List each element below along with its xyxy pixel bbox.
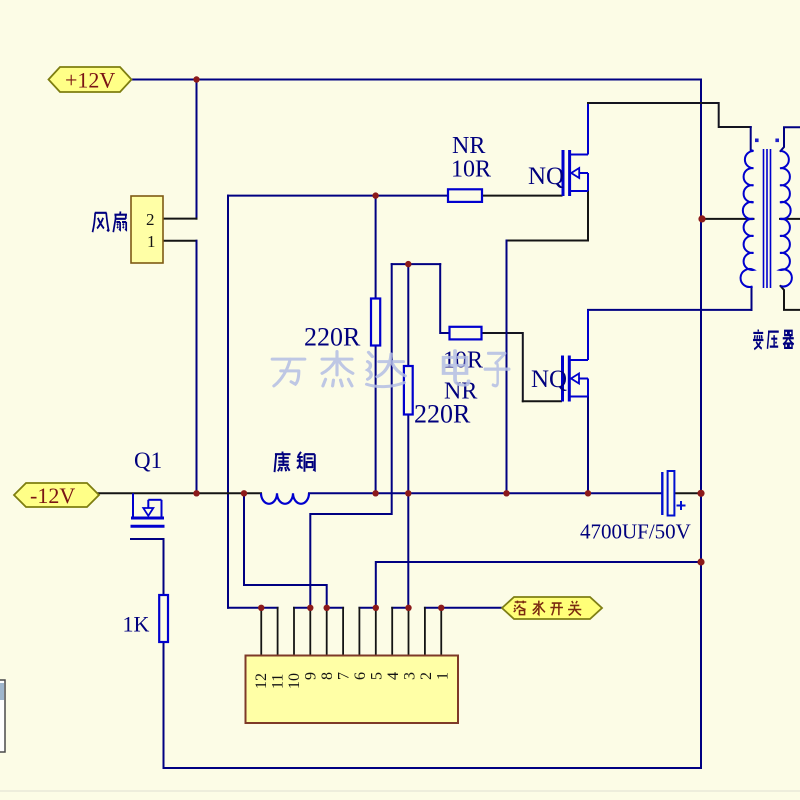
junction -12V rail / 220R left (372, 490, 378, 496)
wire rail branch to pin 8 (244, 493, 327, 608)
wire transformer center tap to bus (702, 218, 754, 220)
wire secondary bottom lead exiting right (781, 286, 800, 310)
transformer T1 (741, 139, 792, 289)
inductor constantan shunt (261, 493, 309, 504)
wire tie pins 10-9 (294, 607, 310, 609)
svg-text:10R: 10R (451, 157, 491, 183)
junction pin 9 (307, 605, 313, 611)
resistor 220R (right) (404, 366, 413, 415)
svg-text:11: 11 (270, 674, 287, 689)
wire 220R1 top lead (375, 196, 377, 299)
junction +12V rail / fan branch (193, 76, 199, 82)
svg-text:NQ: NQ (531, 366, 567, 393)
svg-text:1: 1 (147, 232, 156, 251)
wire tie pins 8-7 (327, 607, 343, 609)
transistor NQ1 N-MOSFET (563, 104, 588, 196)
svg-text:220R: 220R (304, 323, 361, 352)
wire left drive loop vertical x=228 (227, 196, 229, 608)
svg-text:4700UF/50V: 4700UF/50V (580, 520, 691, 544)
svg-text:10R: 10R (443, 348, 483, 374)
resistor 1K (159, 595, 168, 642)
label transformer (bianyaqi) (753, 329, 794, 349)
wire gate bus NQ1 y=195.6 (228, 195, 448, 197)
junction -12V rail / fan pin1 (193, 490, 199, 496)
svg-text:8: 8 (319, 672, 336, 680)
svg-text:6: 6 (352, 672, 369, 680)
wire connector pin stubs (261, 608, 441, 656)
junction y264 bus / 220R right (405, 261, 411, 267)
wire 220R2 top lead (407, 264, 409, 366)
wire tie pins 6-5 (359, 607, 375, 609)
svg-text:2: 2 (418, 672, 435, 680)
resistor 220R (left) (371, 299, 380, 346)
scrollbar artifact left edge (0, 680, 5, 752)
power flag -12V (14, 483, 99, 507)
junction -12V rail / pin8 branch (241, 490, 247, 496)
wire x=391.7 drop from y=264 (310, 264, 391, 608)
wire 10R2 left lead drop (440, 264, 449, 333)
junction pin 8 (324, 605, 330, 611)
resistor NR 10R (upper) (448, 189, 482, 202)
svg-text:3: 3 (402, 672, 419, 680)
junction -12V rail / right bus (697, 490, 704, 497)
wire -12V rail left section (97, 492, 261, 494)
wire NQ1 drain rail y=103 (588, 103, 751, 127)
faint bottom separator line (0, 790, 800, 792)
transistor Q1 N-MOSFET (rotated) (131, 493, 165, 526)
wire NQ2 gate segment (523, 400, 561, 402)
junction gate bus / 220R left (372, 192, 378, 198)
wire fan pin 1 stub (163, 240, 197, 242)
svg-text:220R: 220R (414, 400, 471, 429)
transformer core (763, 149, 765, 288)
wire secondary tap exiting right (780, 218, 800, 220)
wire 220R2 bottom lead to -12V rail (407, 415, 409, 494)
svg-text:1: 1 (435, 672, 452, 680)
junction -12V rail / NQ1 source (503, 490, 509, 496)
wire bottom return rail y=768 (164, 767, 702, 769)
wire NQ1 source to -12V rail (507, 191, 589, 241)
junction pin 3 (405, 605, 411, 611)
wire secondary top lead exiting right (781, 127, 800, 151)
resistor 10R NR (lower) (450, 327, 482, 340)
wire Q1 gate lead to 1K (131, 539, 164, 595)
wire -12V rail mid section (309, 492, 662, 494)
wire node bus y=264 (392, 263, 441, 265)
wire capacitor right lead (675, 492, 702, 494)
svg-text:5: 5 (369, 672, 386, 680)
transformer polarity dot primary (755, 139, 759, 143)
svg-text:Q1: Q1 (134, 448, 162, 473)
wire transformer primary top lead (750, 127, 752, 150)
wire +12V top rail (131, 79, 701, 81)
net flag water switch (luoshui kaiguan) (502, 597, 602, 619)
wire fan pin 1 drop to -12V rail (196, 241, 198, 494)
connector J1 (12 pin) (246, 656, 459, 724)
svg-text:NQ: NQ (528, 163, 564, 190)
wire transformer primary bottom lead (751, 287, 753, 310)
wire 220R1 bottom lead to -12V rail (375, 346, 377, 494)
label constantan (kangtong) (275, 451, 315, 472)
transformer polarity dot secondary (775, 139, 779, 143)
capacitor C1 4700UF/50V (662, 471, 685, 516)
wire 10R2 right to NQ2 gate (482, 333, 523, 401)
junction right bus / y562 bus (697, 558, 704, 565)
wire tie pins 12-11 (261, 607, 277, 609)
wire 1K bottom to return rail (163, 642, 165, 768)
svg-text:9: 9 (303, 672, 320, 680)
wire rail to connector pin 3 (407, 493, 409, 608)
svg-text:2: 2 (146, 210, 155, 229)
svg-text:1K: 1K (123, 612, 150, 637)
wire tie pins 4-3 (392, 607, 408, 609)
wire tie pins 2-1 (425, 607, 441, 609)
connector fan (2 pin) (131, 196, 163, 263)
wire NQ2 drain rail y=310 (588, 309, 752, 311)
power flag +12V (49, 67, 132, 92)
junction pin 12 (258, 605, 264, 611)
transformer secondary winding (780, 151, 791, 219)
wire right bus vertical x=701 (700, 80, 702, 769)
wire NQ2 source drop x=588 (587, 397, 589, 494)
junction pin 5 (373, 605, 379, 611)
label water switch text (luoshui kaiguan) (514, 601, 582, 616)
junction transformer center tap (698, 215, 705, 222)
wire fan pin 2 stub (163, 218, 197, 220)
label fan (fengshan) (93, 211, 127, 232)
wire bus y=562 to pin 5 (376, 562, 701, 608)
svg-text:+12V: +12V (65, 68, 115, 93)
wire left drive loop to pin 12 (228, 607, 261, 609)
svg-text:10: 10 (286, 673, 303, 689)
svg-text:-12V: -12V (30, 483, 75, 508)
svg-text:7: 7 (336, 672, 353, 680)
svg-text:4: 4 (385, 672, 402, 680)
wire +12V drop to fan pin 2 (196, 80, 198, 219)
junction pin 1 (438, 605, 444, 611)
transistor NQ2 N-MOSFET (563, 310, 589, 402)
junction -12V rail / 220R right (405, 490, 411, 496)
svg-text:12: 12 (253, 673, 270, 689)
wire pin 1 to water switch flag (441, 607, 502, 609)
junction -12V rail / NQ2 source (585, 490, 591, 496)
transformer primary winding (743, 150, 754, 219)
wire NQ1 source drop x=506.5 (506, 241, 508, 494)
svg-text:NR: NR (452, 133, 485, 159)
wire NR 10R right to NQ1 gate (482, 195, 562, 197)
watermark wanjieda dianzi (272, 351, 509, 387)
